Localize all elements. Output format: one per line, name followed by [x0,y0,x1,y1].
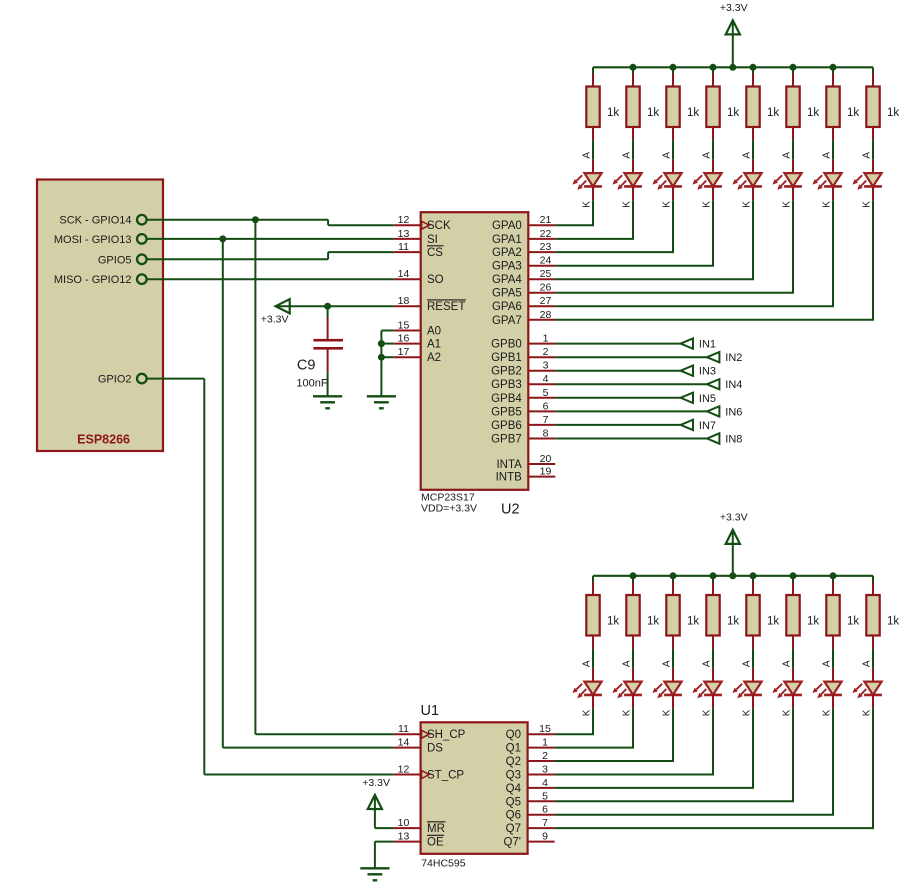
svg-text:4: 4 [543,373,549,385]
svg-text:SCK: SCK [427,220,451,232]
svg-text:K: K [821,709,832,716]
svg-text:CS: CS [427,247,443,259]
svg-text:SCK - GPIO14: SCK - GPIO14 [59,215,131,227]
svg-text:22: 22 [540,228,552,240]
svg-text:Q0: Q0 [506,729,521,741]
svg-text:GPA1: GPA1 [492,234,522,246]
svg-text:1k: 1k [607,616,619,628]
svg-text:A: A [781,152,792,159]
svg-text:K: K [701,201,712,208]
svg-text:12: 12 [398,214,410,226]
svg-text:13: 13 [398,831,410,843]
svg-text:IN1: IN1 [699,339,716,351]
svg-text:2: 2 [542,750,548,762]
svg-text:Q7: Q7 [506,823,521,835]
svg-text:74HC595: 74HC595 [421,857,466,869]
svg-text:11: 11 [398,241,409,253]
svg-text:K: K [581,201,592,208]
svg-text:GPA0: GPA0 [492,220,522,232]
svg-text:GPB3: GPB3 [491,379,522,391]
svg-text:1k: 1k [887,616,899,628]
svg-text:17: 17 [398,346,410,358]
svg-text:U2: U2 [501,502,520,518]
svg-text:A: A [661,660,672,667]
svg-text:U1: U1 [421,703,440,719]
svg-text:K: K [621,709,632,716]
svg-text:3: 3 [542,764,548,776]
svg-text:K: K [621,201,632,208]
svg-text:SH_CP: SH_CP [427,729,466,741]
svg-text:1: 1 [542,737,548,749]
svg-text:IN6: IN6 [725,406,742,418]
svg-text:1k: 1k [767,107,779,119]
svg-text:28: 28 [540,309,552,321]
svg-text:IN8: IN8 [725,434,742,446]
svg-text:A: A [821,152,832,159]
svg-text:19: 19 [540,466,552,478]
svg-text:ST_CP: ST_CP [427,770,464,782]
svg-text:SI: SI [427,234,438,246]
svg-text:A1: A1 [427,339,441,351]
svg-text:1k: 1k [807,616,819,628]
svg-text:A: A [741,152,752,159]
svg-text:25: 25 [540,268,552,280]
svg-text:8: 8 [543,428,549,440]
svg-text:1k: 1k [687,616,699,628]
svg-text:+3.3V: +3.3V [720,511,748,523]
svg-text:12: 12 [398,764,410,776]
svg-text:1k: 1k [607,107,619,119]
svg-text:Q3: Q3 [506,770,521,782]
svg-text:A: A [661,152,672,159]
svg-text:K: K [861,709,872,716]
svg-text:IN5: IN5 [699,393,716,405]
svg-text:1: 1 [543,333,549,345]
svg-text:7: 7 [542,817,548,829]
svg-text:GPA2: GPA2 [492,247,522,259]
svg-text:7: 7 [543,414,549,426]
svg-text:1k: 1k [847,107,859,119]
svg-text:100nF: 100nF [296,378,327,390]
svg-text:1k: 1k [687,107,699,119]
svg-text:10: 10 [398,817,410,829]
svg-text:GPA5: GPA5 [492,288,522,300]
svg-text:GPB0: GPB0 [491,339,522,351]
svg-text:A: A [701,660,712,667]
svg-text:23: 23 [540,241,552,253]
svg-text:Q1: Q1 [506,743,521,755]
svg-text:1k: 1k [647,107,659,119]
svg-text:16: 16 [398,333,410,345]
svg-text:6: 6 [543,400,549,412]
svg-text:A: A [581,152,592,159]
svg-text:15: 15 [539,723,551,735]
svg-text:27: 27 [540,295,552,307]
svg-text:MISO - GPIO12: MISO - GPIO12 [54,274,132,286]
svg-text:Q7': Q7' [503,837,521,849]
svg-text:14: 14 [398,737,410,749]
svg-text:14: 14 [398,268,410,280]
svg-text:1k: 1k [727,616,739,628]
svg-text:GPB4: GPB4 [491,393,522,405]
svg-text:A: A [861,152,872,159]
svg-text:GPB5: GPB5 [491,406,522,418]
svg-text:1k: 1k [807,107,819,119]
svg-text:VDD=+3.3V: VDD=+3.3V [421,503,477,515]
svg-text:A: A [621,660,632,667]
svg-text:INTA: INTA [496,459,522,471]
svg-text:5: 5 [542,790,548,802]
svg-text:26: 26 [540,282,552,294]
svg-text:Q5: Q5 [506,796,521,808]
svg-text:K: K [781,201,792,208]
svg-text:GPA7: GPA7 [492,315,522,327]
svg-text:A: A [701,152,712,159]
svg-text:GPA3: GPA3 [492,261,522,273]
svg-text:6: 6 [542,804,548,816]
svg-text:ESP8266: ESP8266 [77,433,130,447]
svg-text:GPA6: GPA6 [492,301,522,313]
svg-text:K: K [581,709,592,716]
svg-text:A: A [581,660,592,667]
svg-text:A0: A0 [427,326,441,338]
svg-text:K: K [861,201,872,208]
svg-text:DS: DS [427,743,443,755]
svg-text:GPB7: GPB7 [491,434,522,446]
svg-text:RESET: RESET [427,301,465,313]
svg-text:K: K [781,709,792,716]
svg-text:A: A [781,660,792,667]
svg-text:3: 3 [543,360,549,372]
svg-text:2: 2 [543,346,549,358]
svg-text:A: A [821,660,832,667]
svg-text:9: 9 [542,831,548,843]
svg-text:21: 21 [540,214,552,226]
svg-text:MR: MR [427,823,445,835]
svg-text:GPIO2: GPIO2 [98,374,132,386]
svg-text:OE: OE [427,837,444,849]
svg-text:GPB2: GPB2 [491,366,522,378]
svg-text:SO: SO [427,274,444,286]
svg-text:4: 4 [542,777,548,789]
svg-text:15: 15 [398,320,410,332]
svg-text:20: 20 [540,453,552,465]
svg-text:5: 5 [543,387,549,399]
svg-text:+3.3V: +3.3V [261,314,289,326]
svg-text:K: K [661,709,672,716]
svg-text:GPA4: GPA4 [492,274,522,286]
svg-text:K: K [701,709,712,716]
svg-text:K: K [741,709,752,716]
svg-text:GPIO5: GPIO5 [98,254,132,266]
svg-text:A: A [861,660,872,667]
svg-text:Q6: Q6 [506,810,521,822]
svg-text:+3.3V: +3.3V [720,2,748,14]
svg-text:18: 18 [398,295,410,307]
svg-text:Q4: Q4 [506,783,522,795]
svg-text:IN7: IN7 [699,420,716,432]
svg-text:C9: C9 [297,358,316,374]
svg-text:GPB6: GPB6 [491,420,522,432]
svg-text:A2: A2 [427,352,441,364]
svg-text:A: A [621,152,632,159]
svg-text:IN4: IN4 [725,379,742,391]
svg-text:Q2: Q2 [506,756,521,768]
svg-text:K: K [661,201,672,208]
svg-text:1k: 1k [767,616,779,628]
svg-text:IN3: IN3 [699,366,716,378]
svg-text:K: K [821,201,832,208]
svg-text:1k: 1k [887,107,899,119]
svg-text:11: 11 [398,723,409,735]
svg-text:IN2: IN2 [725,352,742,364]
svg-text:24: 24 [540,255,552,267]
svg-text:MOSI - GPIO13: MOSI - GPIO13 [54,234,132,246]
svg-text:1k: 1k [847,616,859,628]
svg-text:1k: 1k [727,107,739,119]
svg-text:GPB1: GPB1 [491,352,522,364]
svg-text:A: A [741,660,752,667]
svg-text:INTB: INTB [496,472,523,484]
svg-text:13: 13 [398,228,410,240]
svg-text:+3.3V: +3.3V [362,777,390,789]
svg-text:1k: 1k [647,616,659,628]
svg-text:K: K [741,201,752,208]
